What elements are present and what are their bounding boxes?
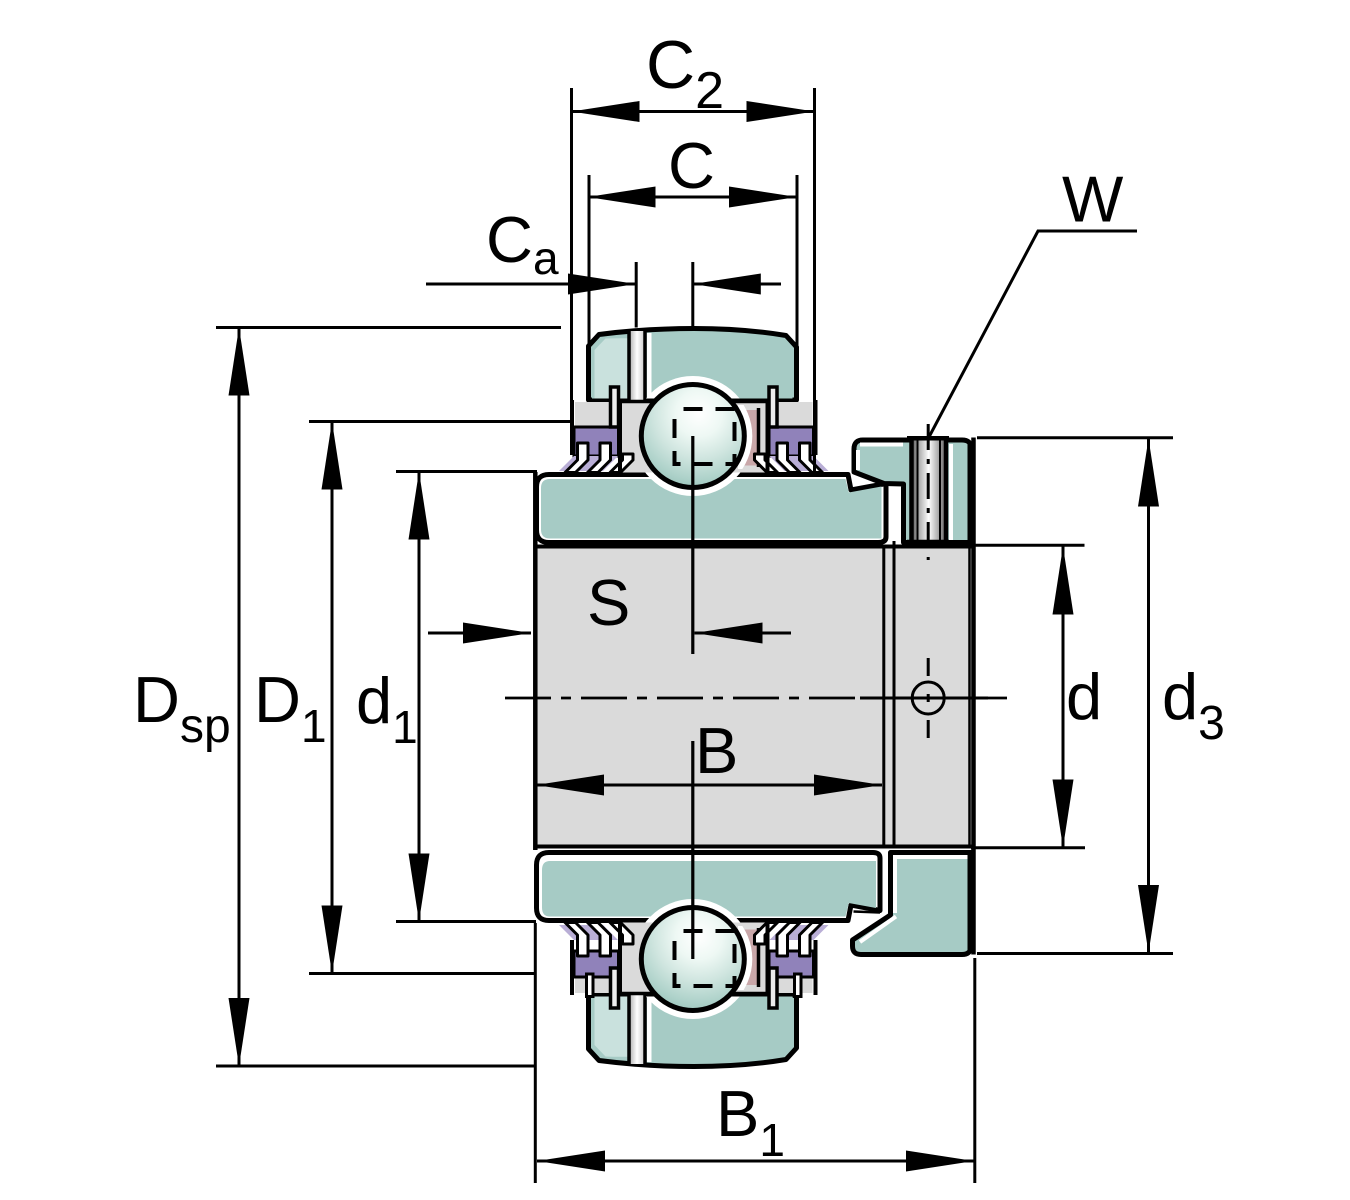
- ball bottom: [641, 908, 744, 1011]
- dimension B: [536, 714, 882, 796]
- eccentric locking collar top piece: [854, 440, 971, 543]
- svg-text:d: d: [1066, 660, 1102, 733]
- label W + leader: [929, 163, 1137, 438]
- crosshair screw position: [860, 658, 988, 738]
- outer ring band top: [537, 475, 887, 543]
- outer ring cap top: [589, 329, 797, 401]
- svg-text:B: B: [695, 714, 738, 787]
- dimension B1: [535, 923, 975, 1183]
- collar right edge full: [971, 438, 976, 955]
- cap bottom edge: [588, 399, 629, 403]
- outer ring band bottom: [537, 853, 881, 921]
- right seal (mirror): [755, 387, 829, 473]
- dimension C2: [572, 27, 815, 476]
- outer ring cap bottom: [589, 995, 797, 1067]
- side face gray behind ball: [619, 401, 768, 473]
- shaft / inner ring bore block: [534, 472, 975, 850]
- ball marks top: dashed square + center plane: [675, 409, 735, 654]
- ball marks bottom: [675, 741, 735, 986]
- cage pink: [741, 410, 758, 466]
- cage pink bottom: [741, 930, 758, 986]
- eccentric locking collar bottom piece: [853, 853, 972, 955]
- dimension S: [428, 566, 791, 644]
- svg-text:W: W: [1062, 163, 1124, 236]
- ball halo: [633, 376, 753, 496]
- dimension d3: [977, 438, 1225, 954]
- svg-text:S: S: [587, 566, 630, 639]
- grub screw W: [907, 424, 949, 560]
- dimension D1: [254, 422, 571, 974]
- side face gray behind bottom ball: [619, 923, 768, 995]
- dimension C: [588, 129, 798, 400]
- lubrication hole strip: [631, 331, 644, 400]
- lubrication hole strip bottom: [631, 995, 644, 1064]
- dimension Ca: [426, 203, 781, 328]
- ball top: [641, 385, 744, 488]
- ball halo bottom: [633, 899, 753, 1019]
- dimension d: [971, 545, 1102, 848]
- left seal bottom: [559, 923, 633, 1009]
- dimension d1: [356, 472, 537, 922]
- dimension Dsp: [133, 328, 561, 1067]
- left seal: [559, 387, 633, 473]
- svg-text:C: C: [668, 129, 715, 202]
- centerline horizontal: [505, 697, 1015, 700]
- cap top edge bottom: [588, 993, 629, 997]
